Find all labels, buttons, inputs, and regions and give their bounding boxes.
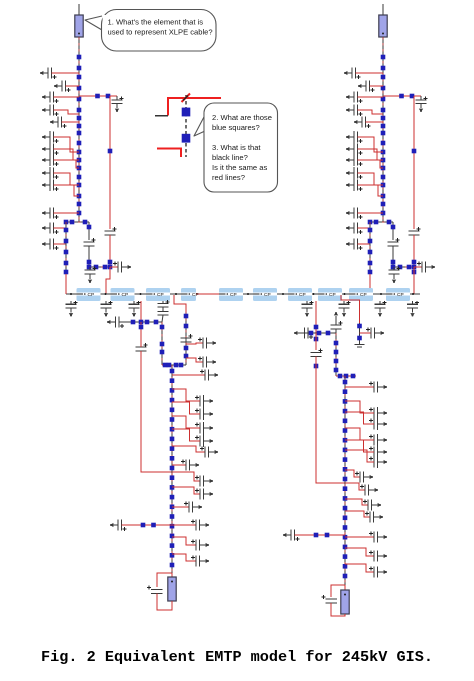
svg-text:3. What is that: 3. What is that [212,143,261,152]
svg-text:CP: CP [360,292,367,298]
svg-text:CP: CP [230,292,237,298]
svg-text:CP: CP [122,292,129,298]
svg-text:Is it the same as: Is it the same as [212,163,267,172]
svg-text:CP: CP [329,292,336,298]
svg-text:CP: CP [264,292,271,298]
svg-text:CP: CP [397,292,404,298]
svg-text:CP: CP [88,292,95,298]
svg-text:Fig. 2 Equivalent EMTP model f: Fig. 2 Equivalent EMTP model for 245kV G… [41,648,433,666]
svg-text:2. What are those: 2. What are those [212,113,272,122]
svg-text:CP: CP [157,292,164,298]
svg-text:red lines?: red lines? [212,173,245,182]
svg-text:black line?: black line? [212,153,248,162]
svg-text:blue squares?: blue squares? [212,123,260,132]
svg-text:used to represent XLPE cable?: used to represent XLPE cable? [108,28,213,37]
svg-text:1. What's the element that is: 1. What's the element that is [108,18,204,27]
svg-text:CP: CP [192,292,199,298]
svg-text:CP: CP [299,292,306,298]
